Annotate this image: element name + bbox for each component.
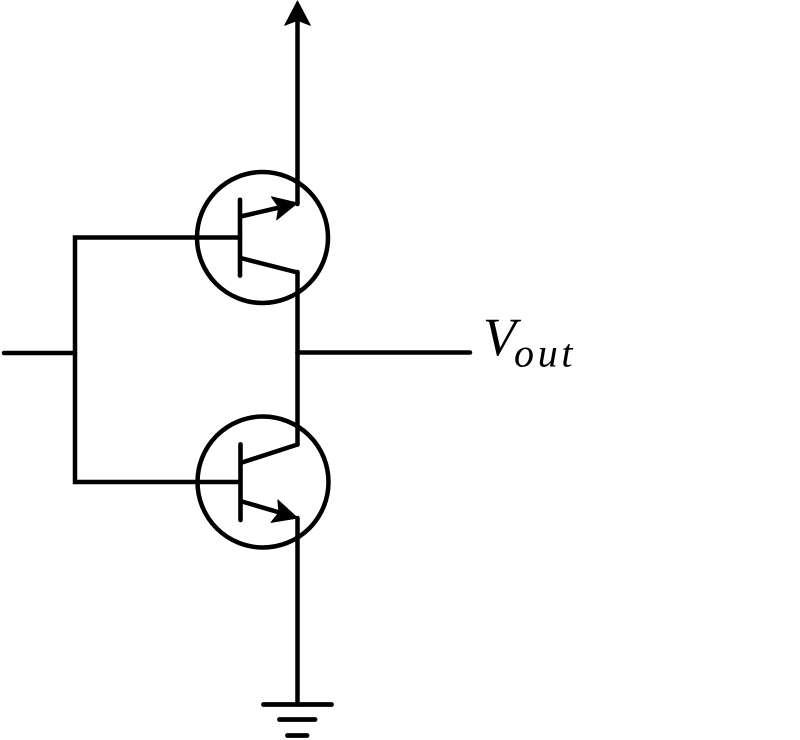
Q2 collector lead bbox=[242, 445, 298, 463]
wire: input stub bbox=[4, 351, 75, 356]
Q2 body circle bbox=[198, 417, 329, 548]
ground symbol bbox=[264, 705, 332, 736]
ground bar 2 bbox=[280, 717, 316, 722]
wire: Q1 collector to output node bbox=[295, 272, 300, 353]
ground bar 1 bbox=[264, 702, 332, 707]
Q1 base bar bbox=[238, 200, 243, 276]
Q2 emitter arrowhead bbox=[271, 500, 301, 529]
ground bar 3 bbox=[288, 733, 308, 738]
svg-text:out: out bbox=[514, 331, 573, 376]
transistor Q1 (top NPN, emitter to V+) bbox=[197, 172, 328, 303]
wire: output node to Vout terminal bbox=[298, 350, 471, 355]
wire: Q2 emitter down to ground bbox=[295, 518, 300, 705]
wire: input bus to Q1 base and Q2 base bbox=[75, 238, 241, 483]
Q1 emitter arrowhead bbox=[272, 192, 301, 220]
Q1 body circle bbox=[197, 172, 328, 303]
Q1 collector lead bbox=[241, 258, 298, 273]
Q1 emitter lead bbox=[241, 206, 289, 217]
transistor Q2 (bottom NPN, emitter to ground) bbox=[198, 417, 329, 548]
Q2 emitter lead bbox=[242, 502, 288, 516]
wire: V+ supply down to Q1 emitter bbox=[295, 20, 300, 204]
Q2 base bar bbox=[238, 444, 243, 520]
wire: output node to Q2 collector bbox=[295, 353, 300, 445]
node Vout label bbox=[483, 307, 573, 376]
V+ supply arrowhead bbox=[285, 1, 311, 25]
